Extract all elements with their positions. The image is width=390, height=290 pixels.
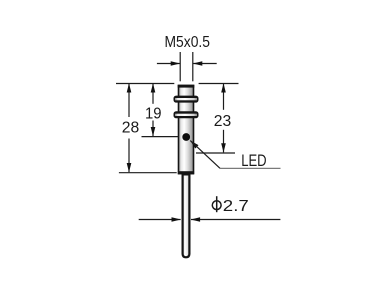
top reference line left segment bbox=[116, 83, 174, 85]
svg-text:2.7: 2.7 bbox=[223, 198, 249, 215]
sensor barrel body bbox=[179, 86, 194, 174]
extension line (19) bbox=[142, 136, 179, 138]
dia 2.7 dimension line left with arrow bbox=[139, 217, 181, 222]
LED indicator dot bbox=[182, 133, 190, 141]
dim 19 lower segment with down arrow bbox=[151, 121, 156, 137]
barrel top edge bar bbox=[178, 85, 195, 88]
M5 dimension line left with arrow bbox=[157, 61, 180, 66]
svg-text:M5x0.5: M5x0.5 bbox=[165, 34, 211, 51]
dim 28 upper segment with up arrow bbox=[127, 83, 132, 117]
body bottom edge band bbox=[178, 171, 194, 174]
svg-text:LED: LED bbox=[241, 151, 266, 170]
dim 23 lower segment with down arrow bbox=[221, 130, 226, 153]
svg-text:19: 19 bbox=[145, 105, 162, 122]
M5 dimension line right with arrow bbox=[193, 61, 217, 66]
LED leader arrowhead bbox=[190, 141, 198, 149]
thread ring 2 bbox=[174, 111, 199, 118]
svg-text:23: 23 bbox=[214, 113, 232, 130]
dim 23 upper segment with up arrow bbox=[221, 83, 226, 110]
dia 2.7 dimension line right with arrow bbox=[191, 217, 281, 222]
dim 19 upper segment with up arrow bbox=[151, 83, 156, 104]
LED label underline bbox=[220, 167, 281, 169]
svg-text:28: 28 bbox=[122, 119, 140, 136]
dim 28 lower segment with down arrow bbox=[127, 139, 132, 173]
LED leader line bbox=[190, 141, 220, 169]
thread extension line left bbox=[179, 52, 181, 81]
bottom extension line (28) bbox=[119, 172, 177, 174]
diameter symbol phi bbox=[212, 196, 221, 212]
thread ring 1 bbox=[174, 96, 199, 103]
top reference line right segment bbox=[199, 83, 239, 85]
extension line (23) bbox=[196, 152, 235, 154]
thread extension line right bbox=[192, 52, 194, 81]
probe rod (cable) bbox=[183, 174, 190, 257]
